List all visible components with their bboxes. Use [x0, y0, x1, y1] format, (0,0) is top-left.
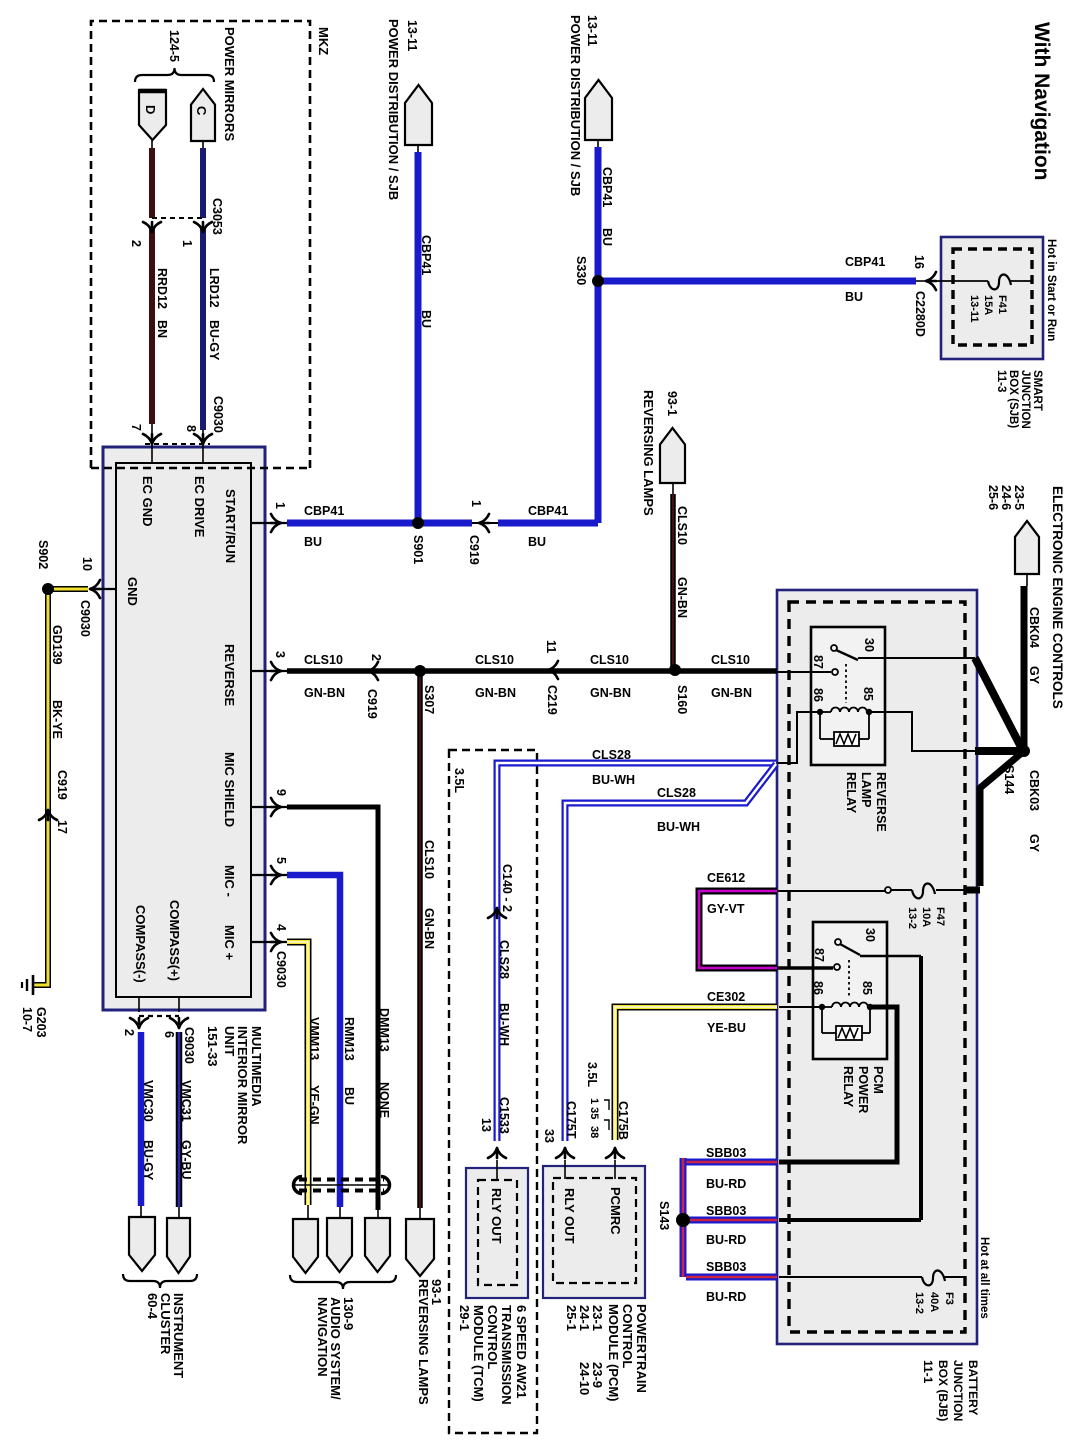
svg-text:PCM: PCM: [871, 1066, 885, 1094]
svg-text:17: 17: [55, 820, 69, 834]
svg-text:24-6: 24-6: [999, 485, 1013, 510]
svg-text:13-11: 13-11: [585, 15, 599, 46]
svg-text:11-1: 11-1: [921, 1360, 935, 1384]
svg-text:33: 33: [542, 1129, 556, 1143]
svg-text:S160: S160: [675, 685, 689, 714]
svg-text:BOX (BJB): BOX (BJB): [936, 1360, 950, 1421]
svg-text:MODULE (PCM): MODULE (PCM): [606, 1304, 621, 1402]
svg-text:With Navigation: With Navigation: [1030, 22, 1053, 180]
svg-text:F47: F47: [934, 907, 946, 926]
svg-text:F3: F3: [943, 1292, 955, 1305]
svg-text:CLS10: CLS10: [675, 506, 689, 545]
svg-text:CE612: CE612: [707, 871, 745, 885]
svg-text:S144: S144: [1002, 765, 1016, 794]
svg-text:TRANSMISSION: TRANSMISSION: [499, 1305, 514, 1405]
svg-text:RRD12: RRD12: [155, 268, 169, 309]
svg-text:2: 2: [129, 240, 143, 247]
svg-text:MODULE (TCM): MODULE (TCM): [471, 1305, 486, 1402]
svg-text:C2280D: C2280D: [913, 291, 927, 337]
svg-text:C219: C219: [545, 685, 559, 715]
svg-text:POWER DISTRIBUTION / SJB: POWER DISTRIBUTION / SJB: [386, 19, 401, 200]
svg-text:40A: 40A: [928, 1292, 940, 1312]
svg-text:6 SPEED AW21: 6 SPEED AW21: [514, 1305, 529, 1398]
svg-text:5: 5: [274, 857, 288, 864]
svg-text:BU-RD: BU-RD: [706, 1290, 746, 1304]
svg-text:C175B: C175B: [616, 1101, 630, 1140]
svg-text:BU: BU: [845, 290, 863, 304]
svg-text:REVERSING LAMPS: REVERSING LAMPS: [641, 390, 656, 516]
svg-text:NONE: NONE: [377, 1082, 391, 1118]
svg-text:VMM13: VMM13: [307, 1017, 321, 1060]
svg-text:S307: S307: [422, 685, 436, 714]
svg-text:UNIT: UNIT: [222, 1026, 237, 1056]
svg-text:10A: 10A: [920, 907, 932, 927]
svg-text:G203: G203: [34, 1007, 48, 1038]
svg-text:BN: BN: [155, 320, 169, 338]
svg-text:CLS10: CLS10: [422, 840, 436, 879]
svg-text:25-6: 25-6: [986, 485, 1000, 510]
svg-text:CLS28: CLS28: [497, 940, 511, 979]
svg-text:SBB03: SBB03: [706, 1204, 746, 1218]
svg-text:10: 10: [80, 557, 94, 571]
svg-text:CBK04: CBK04: [1027, 607, 1041, 648]
svg-text:85: 85: [860, 981, 874, 995]
svg-text:RLY OUT: RLY OUT: [489, 1188, 504, 1244]
svg-text:15A: 15A: [982, 295, 994, 315]
svg-text:C9030: C9030: [274, 951, 288, 988]
svg-text:GN-BN: GN-BN: [304, 686, 345, 700]
svg-text:25-1: 25-1: [564, 1305, 579, 1331]
svg-text:GND: GND: [125, 577, 140, 606]
svg-text:MIC -: MIC -: [222, 865, 237, 897]
svg-text:VMC31: VMC31: [179, 1080, 193, 1122]
svg-text:11: 11: [544, 640, 558, 653]
svg-text:SBB03: SBB03: [706, 1260, 746, 1274]
svg-text:GY: GY: [1027, 666, 1041, 685]
svg-text:RLY OUT: RLY OUT: [562, 1188, 577, 1244]
svg-text:124-5: 124-5: [167, 30, 181, 62]
svg-text:CE302: CE302: [707, 990, 745, 1004]
svg-text:3.5L: 3.5L: [585, 1062, 599, 1087]
svg-text:MIC SHIELD: MIC SHIELD: [222, 752, 237, 827]
svg-text:C140 - 2: C140 - 2: [500, 864, 514, 912]
svg-text:9: 9: [274, 789, 288, 796]
svg-text:13: 13: [479, 1118, 493, 1132]
svg-text:REVERSE: REVERSE: [222, 644, 237, 706]
svg-text:30: 30: [862, 638, 876, 652]
svg-text:C919: C919: [467, 535, 481, 565]
svg-text:GN-BN: GN-BN: [475, 686, 516, 700]
svg-text:CBP41: CBP41: [419, 235, 433, 275]
svg-text:LRD12: LRD12: [207, 268, 221, 308]
svg-text:23-5: 23-5: [1012, 485, 1026, 510]
svg-text:Hot in Start or Run: Hot in Start or Run: [1045, 239, 1057, 341]
svg-text:GN-BN: GN-BN: [711, 686, 752, 700]
svg-text:3.5L: 3.5L: [452, 768, 466, 793]
svg-text:S330: S330: [574, 256, 588, 285]
svg-text:POWER DISTRIBUTION / SJB: POWER DISTRIBUTION / SJB: [568, 15, 583, 196]
svg-text:CBK03: CBK03: [1027, 770, 1041, 811]
svg-text:4: 4: [274, 924, 288, 931]
svg-text:CONTROL: CONTROL: [620, 1304, 635, 1368]
svg-text:BU: BU: [342, 1087, 356, 1105]
svg-text:REVERSING LAMPS: REVERSING LAMPS: [416, 1279, 431, 1405]
svg-text:C3053: C3053: [210, 198, 224, 235]
svg-text:C1533: C1533: [497, 1097, 511, 1134]
svg-text:C: C: [194, 106, 209, 116]
svg-text:BU: BU: [528, 535, 546, 549]
svg-text:BU-GY: BU-GY: [207, 320, 221, 361]
svg-text:8: 8: [184, 425, 198, 432]
svg-text:87: 87: [812, 948, 826, 962]
svg-text:C9030: C9030: [182, 1027, 196, 1064]
svg-text:JUNCTION: JUNCTION: [951, 1360, 965, 1421]
svg-text:CLS10: CLS10: [304, 653, 343, 667]
svg-text:BK-YE: BK-YE: [50, 700, 64, 739]
svg-text:NAVIGATION: NAVIGATION: [315, 1297, 330, 1377]
svg-text:JUNCTION: JUNCTION: [1019, 370, 1031, 429]
svg-text:C919: C919: [55, 770, 69, 800]
svg-text:2: 2: [369, 654, 383, 661]
svg-text:BU-RD: BU-RD: [706, 1233, 746, 1247]
svg-text:1 35: 1 35: [588, 1098, 600, 1119]
svg-text:1: 1: [469, 500, 483, 507]
svg-text:COMPASS(-): COMPASS(-): [133, 905, 148, 983]
svg-text:YE-GN: YE-GN: [307, 1085, 321, 1125]
svg-text:85: 85: [861, 687, 875, 701]
svg-text:CLS28: CLS28: [657, 786, 696, 800]
svg-text:CBP41: CBP41: [528, 504, 568, 518]
svg-text:GN-BN: GN-BN: [590, 686, 631, 700]
svg-text:C9030: C9030: [211, 396, 225, 433]
svg-text:GY: GY: [1027, 834, 1041, 853]
svg-text:1: 1: [273, 502, 287, 509]
svg-text:93-1: 93-1: [665, 391, 679, 416]
svg-text:RMM13: RMM13: [342, 1017, 356, 1061]
svg-text:DMM13: DMM13: [377, 1008, 391, 1052]
svg-text:GD139: GD139: [50, 625, 64, 665]
svg-text:GY-BU: GY-BU: [179, 1140, 193, 1180]
svg-text:CONTROL: CONTROL: [485, 1305, 500, 1369]
svg-text:BOX (SJB): BOX (SJB): [1007, 370, 1019, 428]
svg-text:10-7: 10-7: [20, 1007, 34, 1032]
svg-text:REVERSE: REVERSE: [874, 772, 888, 832]
svg-text:3: 3: [273, 651, 287, 658]
svg-text:CLS28: CLS28: [592, 748, 631, 762]
svg-text:MIC +: MIC +: [222, 925, 237, 960]
svg-text:87: 87: [811, 655, 825, 669]
svg-text:7: 7: [129, 424, 143, 431]
svg-text:BATTERY: BATTERY: [966, 1360, 980, 1415]
svg-text:BU: BU: [304, 535, 322, 549]
svg-text:1: 1: [180, 240, 194, 247]
svg-text:F41: F41: [996, 295, 1008, 314]
svg-text:29-1: 29-1: [457, 1305, 472, 1331]
svg-text:S901: S901: [411, 535, 425, 564]
svg-text:151-33: 151-33: [205, 1026, 220, 1066]
svg-text:RELAY: RELAY: [844, 772, 858, 814]
svg-text:C919: C919: [365, 689, 379, 719]
svg-text:BU-WH: BU-WH: [592, 773, 635, 787]
svg-text:POWER MIRRORS: POWER MIRRORS: [222, 27, 237, 141]
svg-text:POWERTRAIN: POWERTRAIN: [634, 1304, 649, 1393]
svg-text:C175T: C175T: [564, 1101, 578, 1139]
svg-text:BU: BU: [600, 228, 614, 246]
svg-text:SMART: SMART: [1031, 370, 1043, 411]
svg-text:D: D: [143, 105, 158, 114]
svg-text:CBP41: CBP41: [304, 504, 344, 518]
svg-text:BU: BU: [419, 310, 433, 328]
svg-text:BU-WH: BU-WH: [497, 1003, 511, 1046]
svg-text:6: 6: [162, 1031, 176, 1038]
svg-text:BU-WH: BU-WH: [657, 820, 700, 834]
svg-text:13-2: 13-2: [913, 1292, 925, 1314]
svg-text:30: 30: [863, 928, 877, 942]
svg-text:GY-VT: GY-VT: [707, 902, 745, 916]
svg-text:RELAY: RELAY: [841, 1066, 855, 1108]
svg-text:Hot at all times: Hot at all times: [978, 1237, 990, 1319]
svg-text:EC GND: EC GND: [140, 476, 155, 527]
svg-text:11-3: 11-3: [995, 370, 1007, 392]
svg-text:16: 16: [912, 255, 926, 269]
svg-text:S143: S143: [657, 1201, 671, 1230]
svg-text:PCMRC: PCMRC: [608, 1187, 623, 1235]
svg-text:S902: S902: [36, 540, 50, 569]
svg-text:C9030: C9030: [78, 600, 92, 637]
svg-text:13-11: 13-11: [968, 295, 980, 323]
svg-text:2: 2: [122, 1029, 136, 1036]
svg-text:GN-BN: GN-BN: [422, 908, 436, 949]
svg-text:38: 38: [588, 1126, 600, 1138]
svg-text:VMC30: VMC30: [141, 1080, 155, 1122]
svg-text:24-10: 24-10: [577, 1362, 592, 1395]
svg-text:86: 86: [811, 981, 825, 995]
svg-text:POWER: POWER: [856, 1066, 870, 1113]
svg-text:YE-BU: YE-BU: [707, 1021, 746, 1035]
svg-text:START/RUN: START/RUN: [223, 489, 238, 563]
svg-text:CLS10: CLS10: [475, 653, 514, 667]
svg-text:60-4: 60-4: [145, 1293, 160, 1320]
svg-text:13-2: 13-2: [906, 907, 918, 929]
svg-text:BU-RD: BU-RD: [706, 1177, 746, 1191]
svg-text:EC DRIVE: EC DRIVE: [192, 476, 207, 538]
svg-text:CBP41: CBP41: [600, 167, 614, 207]
svg-text:86: 86: [811, 688, 825, 702]
svg-text:GN-BN: GN-BN: [675, 577, 689, 618]
svg-text:CLS10: CLS10: [590, 653, 629, 667]
svg-text:13-11: 13-11: [405, 20, 419, 51]
svg-text:BU-GY: BU-GY: [141, 1140, 155, 1181]
svg-text:ELECTRONIC ENGINE CONTROLS: ELECTRONIC ENGINE CONTROLS: [1050, 486, 1065, 709]
svg-text:MULTIMEDIA: MULTIMEDIA: [249, 1026, 264, 1107]
svg-text:LAMP: LAMP: [859, 772, 873, 807]
svg-text:COMPASS(+): COMPASS(+): [167, 900, 182, 981]
svg-text:MKZ: MKZ: [316, 27, 331, 55]
svg-text:CBP41: CBP41: [845, 255, 885, 269]
svg-text:SBB03: SBB03: [706, 1146, 746, 1160]
svg-text:CLS10: CLS10: [711, 653, 750, 667]
